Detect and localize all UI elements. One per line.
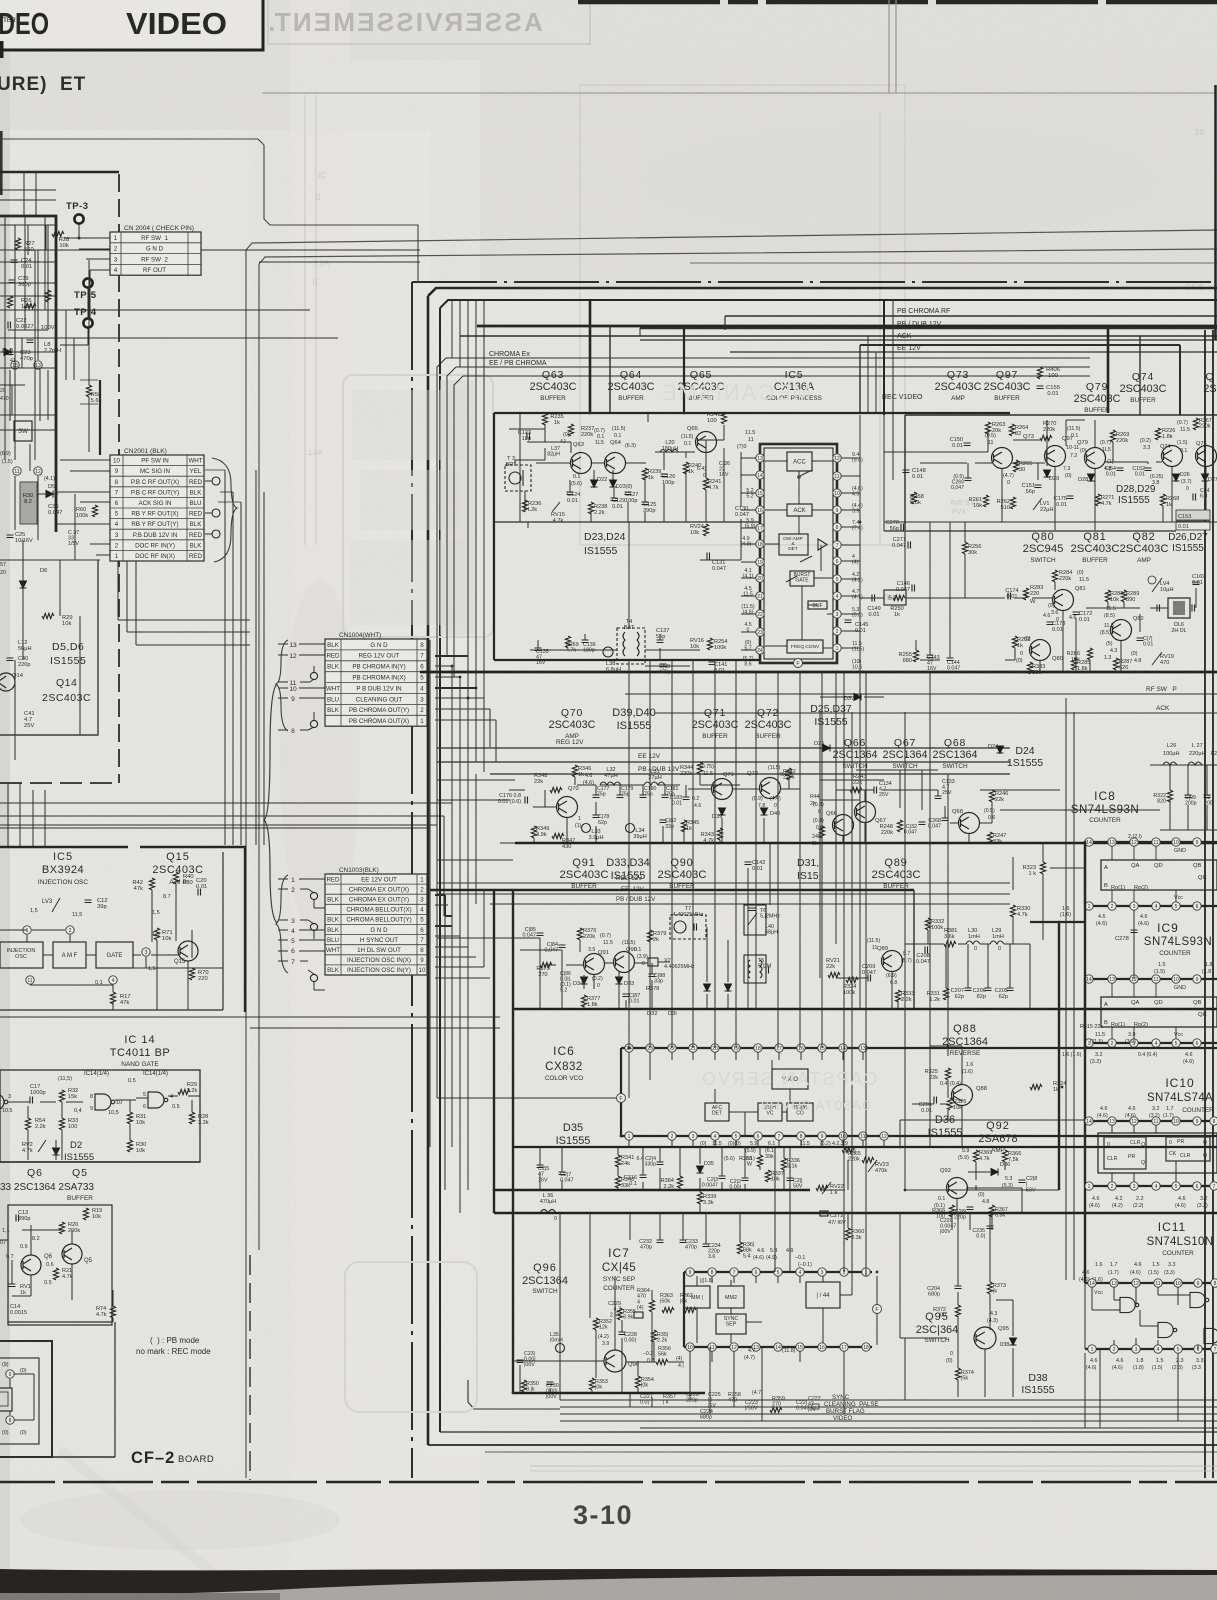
capacitor C184 0.047 <box>559 945 566 948</box>
box FREQ CONV <box>787 640 823 653</box>
resistor R353 10k <box>589 1378 594 1390</box>
box AFC DET <box>705 1103 729 1121</box>
capacitor C201 0.01 <box>934 1097 937 1104</box>
capacitor C174 0.01 <box>1008 593 1011 600</box>
capacitor C178 62p <box>593 815 600 818</box>
capacitor C149 0.01 <box>872 595 875 602</box>
transistor Q96 <box>604 1350 626 1372</box>
wires Q6 Q5 block <box>30 1225 32 1255</box>
resistor R235 1k <box>542 413 547 425</box>
wires row3 <box>437 937 540 939</box>
wires bottom drops <box>651 1397 653 1407</box>
capacitor C230 0.001 100V <box>547 1382 554 1385</box>
resistor R361 68k <box>737 1242 742 1254</box>
box AMF <box>53 942 86 968</box>
capacitor C136 180p <box>582 640 589 643</box>
resistor R263 20k <box>985 422 990 434</box>
wires top right coils <box>1150 764 1217 766</box>
resistor R30b 10k <box>127 1140 132 1152</box>
capacitor C143 47 16V <box>927 655 934 658</box>
capacitor C268 0.047 <box>942 818 949 821</box>
pin circle 9 <box>6 1370 14 1378</box>
vco chip IC6 top pin bus <box>621 1047 1217 1049</box>
transistor Q73 <box>992 448 1013 469</box>
capacitor C176 0.01 <box>525 797 528 804</box>
wires CN2001 to bundle <box>224 470 226 845</box>
resistor R21 4.7k <box>53 1268 58 1280</box>
box BURST GATE <box>790 571 814 586</box>
capacitor C154 0.01 <box>1117 468 1124 471</box>
node F IC5 <box>794 659 803 668</box>
transistor Q89 <box>882 951 903 972</box>
resistor R377 1.8k <box>581 995 586 1007</box>
wires CN2001 left <box>60 459 110 461</box>
wires IC5 BX block <box>0 929 27 931</box>
resistor R246 22k <box>989 790 994 802</box>
resistor R325 22k <box>945 1068 950 1080</box>
diode D38 symbol <box>1010 1338 1017 1345</box>
diode D29 <box>1044 470 1051 477</box>
diode D28 <box>1088 474 1095 481</box>
transistor Q82 <box>1111 620 1132 641</box>
wire R58 vertical <box>88 260 90 385</box>
resistor R250 1k <box>893 595 905 600</box>
wires row1 extra verticals <box>519 413 521 522</box>
capacitor C145 0.01 <box>845 620 852 623</box>
pin circle 1 <box>23 926 31 934</box>
page-edge mark under header box <box>0 41 4 58</box>
wires left block upper <box>14 225 16 360</box>
wires Q14 area <box>14 476 16 530</box>
capacitor C155 0.01 <box>1037 386 1044 389</box>
capacitor C141 0.01 <box>709 662 716 665</box>
capacitors C177 C179 C180 C181 <box>593 795 600 798</box>
left block main border <box>0 216 56 532</box>
wires Q66 row <box>836 789 874 791</box>
delay line DL6 <box>1168 598 1190 618</box>
crystal X2 <box>648 958 658 966</box>
transistor Q65 <box>696 432 717 453</box>
resistor R269 220k <box>1110 430 1115 442</box>
left board dash boundary <box>118 174 120 783</box>
resistor R374 15k <box>955 1368 960 1380</box>
page-edge dark bar left <box>0 131 3 195</box>
nand gate left partial <box>0 1094 8 1110</box>
wires left-to-bundle long <box>0 802 452 804</box>
wires Q95 <box>957 1245 959 1286</box>
wires long row3 verticals <box>755 843 757 905</box>
small box in nested block <box>0 1388 12 1411</box>
resistor R29 10k <box>42 613 54 618</box>
row3 bottom bus <box>513 1008 1217 1010</box>
resistor R289 390 <box>1121 590 1126 602</box>
left dashed vertical <box>249 1255 251 1480</box>
capacitor C235 0.01 <box>987 1226 994 1229</box>
nand gate IC11 a <box>1120 1297 1139 1312</box>
capacitor C124 0.01 <box>567 492 574 495</box>
box GATE <box>96 942 133 968</box>
diode D34 <box>581 977 588 984</box>
resistor R288 10k <box>1105 590 1110 602</box>
resistor R375 270 <box>540 962 552 967</box>
resistor R352 12k <box>593 1318 598 1330</box>
CN1004 brace <box>276 640 288 731</box>
IC7 left edge <box>683 1272 685 1347</box>
resistor R367 6.8k <box>989 1205 994 1217</box>
transistor Q75 <box>1196 446 1217 467</box>
outer boundary line B <box>259 249 1217 264</box>
resistor R286 10k <box>1087 648 1092 660</box>
capacitor C270 56p <box>901 524 904 531</box>
wires signal drops <box>559 1393 561 1400</box>
resistor R26 1.2k <box>7 296 12 308</box>
capacitor C127 100p <box>625 492 632 495</box>
capacitor C278 <box>1131 930 1138 933</box>
capacitor C272 47/16V <box>820 1211 828 1216</box>
pin circle 3 <box>142 948 150 956</box>
wires CN1003 to main block <box>435 894 445 896</box>
capacitor C138 470p <box>660 664 667 667</box>
nand chip IC11 bottom pins <box>1085 1348 1217 1350</box>
Q96 block bottom bus <box>513 1392 705 1394</box>
bus EE 12V top <box>730 351 1217 353</box>
resistor R339 3.3k <box>697 1192 702 1204</box>
resistor R287 620 <box>1113 658 1118 670</box>
bottom page edge shadow <box>0 1574 1217 1600</box>
left block lower border <box>0 560 98 735</box>
resistor R28b 3.3k <box>189 1112 194 1124</box>
wire long verticals B <box>755 672 757 1009</box>
box 1/44 <box>806 1282 840 1308</box>
resistor R254 100k <box>707 638 712 650</box>
wire mid long verticals <box>929 672 931 1147</box>
ghost mirrored ASSERVISSEMENT bleed-through <box>268 0 590 44</box>
resistor R258 5.6k <box>911 492 916 504</box>
resistor R331 1.2k <box>943 988 948 1000</box>
pin circle 2 <box>66 926 74 934</box>
board dash-dot boundary top <box>412 281 1217 283</box>
left block bottom border <box>0 1456 115 1458</box>
row1 bottom bus <box>420 671 1217 674</box>
resistor R379 2k <box>647 930 652 942</box>
bus PB/DUB 12V <box>640 327 1217 329</box>
transistor Q70 <box>557 797 578 818</box>
resistor R372 100 <box>955 1305 960 1317</box>
wires mid horizontals <box>437 859 513 861</box>
block border IC5 BX3924 <box>0 846 128 848</box>
resistor R268 1k <box>1160 494 1165 506</box>
line ACK mid <box>655 712 1217 714</box>
wires IC11 <box>1091 1287 1093 1310</box>
transistor Q74 <box>1162 446 1183 467</box>
capacitor C39 360p <box>9 280 16 283</box>
resistor R242 100 <box>721 412 726 424</box>
ghost bleed block mid-left <box>343 375 493 637</box>
resistor R261 10k <box>983 495 988 507</box>
capacitor C173 0.01 <box>1047 622 1054 625</box>
wire TP4 TP5 stubs <box>87 288 89 318</box>
capacitor C12 39p <box>85 900 92 903</box>
nand gate IC11 d <box>1204 1328 1217 1343</box>
resistor R240 1k <box>683 462 688 474</box>
resistor R17 47k <box>110 992 115 1004</box>
diode D35 symbol <box>697 1166 704 1173</box>
main block outer border <box>428 288 1217 296</box>
row2 bottom bus <box>515 842 1217 845</box>
capacitor C234 220p <box>703 1244 710 1247</box>
resistor R226 1.8k <box>1155 428 1160 440</box>
ff chip IC10 top pins <box>1085 1120 1217 1122</box>
resistor R32 15k <box>59 1090 64 1102</box>
resistor R336 5.1k <box>781 1158 786 1170</box>
wires Q88 Q92 <box>947 1046 949 1056</box>
wires row2 <box>509 789 525 791</box>
capacitor C152 0.01 <box>1145 468 1152 471</box>
wires IC8 left bus <box>1058 922 1060 1190</box>
SW box <box>14 421 32 441</box>
resistor R337 10k <box>765 1170 770 1182</box>
signal line BURST FLAG <box>560 1413 1217 1415</box>
box 3534H CO <box>787 1103 813 1121</box>
transistor Q14 <box>0 673 15 691</box>
parts R322 C199 C200 <box>1167 790 1172 802</box>
wires upper left extra <box>0 189 56 191</box>
resistor R373 1k <box>987 1282 992 1294</box>
capacitor C129 0.01 <box>611 498 618 501</box>
wires IC7 pin drops <box>711 1276 713 1283</box>
wires Q63 area <box>509 428 545 430</box>
nand gate IC11 c <box>1158 1322 1177 1337</box>
box MM2 <box>718 1286 744 1308</box>
box OW AMP DET <box>779 534 808 555</box>
capacitor C208 0.047 <box>925 947 928 954</box>
resistor R350 9.1k <box>521 1380 526 1392</box>
transistor Q6 <box>21 1255 41 1275</box>
wires T4 area <box>530 649 617 651</box>
left block top border <box>0 171 119 174</box>
ghost bleed rounded rect bottom-left <box>345 1262 477 1412</box>
capacitor C153 0.01 highlighted <box>1176 510 1210 520</box>
signal line VIDEO <box>560 1420 1217 1422</box>
resistor R271 4.7k <box>1095 494 1100 506</box>
capacitor C204 680p <box>955 1286 962 1289</box>
capacitor C187 0.01 <box>623 994 630 997</box>
wires Q73 row <box>884 451 988 453</box>
bus ACK top <box>640 339 1217 341</box>
node F IC7 <box>873 1305 882 1314</box>
resistor R283 220 <box>1023 588 1028 600</box>
wire bundle vertical feeders <box>451 300 453 358</box>
capacitor C218 50V <box>1019 1180 1026 1183</box>
resistor R262 510 <box>1010 497 1015 509</box>
IC5 right stub wires <box>841 457 860 459</box>
bottom border line <box>468 1380 560 1409</box>
pin circles 11 12 <box>13 467 21 475</box>
transistor Q63 <box>571 453 592 474</box>
junction dots <box>589 325 592 328</box>
resistor R284 220k <box>1052 570 1057 582</box>
capacitor C183 0.01 <box>683 797 690 800</box>
resistor R71 10k <box>154 928 159 940</box>
resistor R349 3.9k <box>531 826 536 838</box>
row1 block border <box>494 412 1010 414</box>
vco chip IC6 bottom pin bus <box>621 1135 1217 1137</box>
wires IC6 internal <box>714 1089 716 1103</box>
capacitor C126 100p <box>661 474 668 477</box>
IC5 left pins <box>756 454 764 462</box>
resistor R40 680 <box>173 872 178 884</box>
diode D33 <box>616 977 623 984</box>
diodes D32 D31 <box>704 984 711 991</box>
capacitor C228 0.001 <box>619 1332 626 1335</box>
transistor Q97 <box>1045 446 1066 467</box>
transistor Q15 <box>178 941 198 961</box>
amp triangle IC5 <box>818 539 827 550</box>
resistor R360 3.3k <box>845 1228 850 1240</box>
resistor R267 220k <box>1193 418 1198 430</box>
capacitor C23 470p <box>7 352 14 355</box>
wires nested block <box>9 1379 11 1388</box>
resistor R383 33k <box>1027 662 1032 674</box>
wires CN1004 to main block <box>435 655 468 657</box>
IC5 left stub wires <box>741 457 756 459</box>
node F IC6 <box>617 1094 626 1103</box>
pin circle 8 <box>6 1416 14 1424</box>
capacitor C215 47 16V <box>537 1165 544 1168</box>
wire mid verticals <box>904 531 906 590</box>
signal line 5th <box>640 1427 1217 1429</box>
resistor R241 4.7k <box>703 478 708 490</box>
wires CN1004 bundle verticals <box>429 640 431 1147</box>
wire from left block top <box>0 139 418 282</box>
capacitor C172 0.01 <box>1073 612 1080 615</box>
wires lower mid verticals <box>559 1213 561 1361</box>
counter IC8 chip <box>1085 841 1217 843</box>
counter IC9 chip <box>1085 978 1217 980</box>
wires BPF row <box>860 597 884 599</box>
block border Q6 Q5 <box>8 1205 112 1325</box>
resistor R29b 2.2k <box>178 1089 190 1094</box>
capacitor C123 18p <box>527 433 530 440</box>
pin circle 11 <box>26 976 34 984</box>
resistor R255 680 <box>913 650 918 662</box>
resistor R58 5.6k <box>86 385 91 397</box>
header title box VIDEO <box>0 0 263 50</box>
signal line SYNC <box>560 1399 1217 1401</box>
wires row4 parts <box>539 1147 541 1165</box>
resistor R265 30 <box>1013 460 1018 472</box>
row1 right block border <box>860 344 1180 346</box>
left block dashed bottom <box>0 782 119 784</box>
resistor R27 560 <box>15 238 20 250</box>
wires left upper block dense <box>4 216 6 460</box>
footer faint lines <box>530 1465 1217 1467</box>
resistor R368 100 <box>949 1205 954 1217</box>
capacitor C207 62p <box>965 988 972 991</box>
diode D40 <box>761 808 768 815</box>
transistor Q72 <box>760 778 781 799</box>
row4 bus3 <box>494 1212 1217 1214</box>
big cable brace <box>264 684 277 923</box>
resistor R60 100k <box>92 505 97 517</box>
capacitor C188 33p <box>649 974 656 977</box>
wires IC7 internal <box>696 1276 698 1286</box>
capacitor C206 82p <box>985 988 992 991</box>
resistor R282 1k <box>1012 636 1017 648</box>
left block inner border <box>99 380 101 455</box>
resistor R384 2.2k <box>677 1176 682 1188</box>
transistor Q71 <box>712 779 733 800</box>
ghost block outline top middle <box>305 85 905 545</box>
resistor R338 39k <box>757 1155 762 1167</box>
resistor R31 10k <box>127 1112 132 1124</box>
wires row2 horizontals <box>437 779 515 781</box>
capacitor C213 0.0047 <box>719 1176 726 1179</box>
nested block inner <box>0 1358 39 1444</box>
capacitors C232 C233 <box>657 1240 664 1243</box>
transistor Q81 <box>1053 590 1074 611</box>
IC5 right pins <box>833 454 841 462</box>
row4 bus <box>513 1146 1217 1148</box>
resistor R330 4.7k <box>1010 905 1015 917</box>
resistor R346 1k <box>572 765 577 777</box>
capacitor C142 0.01 <box>745 862 752 865</box>
resistor R70 220 <box>189 968 194 980</box>
capacitor C146 0.047 <box>912 585 915 592</box>
transistor Q64 <box>605 453 626 474</box>
resistor R340 33k <box>615 1176 620 1188</box>
resistor R355 3.9k <box>617 1308 622 1320</box>
capacitor C20 0.01 <box>198 889 201 896</box>
wires Q96 area <box>614 1276 616 1350</box>
box INJECTION OSC <box>0 942 43 968</box>
capacitor C269 0.047 <box>965 478 972 481</box>
resistor R345 1k <box>681 820 686 832</box>
sync chip IC7 top pins <box>684 1271 872 1273</box>
wire long verticals A <box>843 672 845 1272</box>
capacitor C171 0.01 <box>1137 638 1144 641</box>
resistor R342 220k <box>786 768 791 780</box>
wires below CN2001 <box>117 561 119 620</box>
box VCO 35lfH <box>758 1103 782 1121</box>
nand chip IC11 top pins <box>1085 1282 1217 1284</box>
IC5 internal wires <box>765 460 787 462</box>
transistor Q91 <box>584 954 605 975</box>
resistor R236 1.2k <box>522 500 527 512</box>
bus second top left <box>460 335 1217 337</box>
capacitor C214 330p <box>657 1162 664 1165</box>
bottom dashed border <box>0 1481 1217 1483</box>
capacitor C151 56p <box>1035 485 1042 488</box>
nested block outer <box>0 1341 52 1457</box>
ff chip IC10 bottom pins <box>1085 1185 1217 1187</box>
pin circle 4 <box>109 976 117 984</box>
resistor R332 100k <box>925 918 930 930</box>
resistor R285 1.8k <box>1071 658 1076 670</box>
resistor R19 10k <box>83 1208 88 1220</box>
resistor R351 2.2k <box>651 1330 656 1342</box>
resistor R238 2.2k <box>588 502 593 514</box>
wires IC6 bottom pin drops <box>628 1140 630 1147</box>
line RF SW P <box>625 693 1217 695</box>
resistor R33 100 <box>59 1118 64 1130</box>
resistor R347 430 <box>552 833 564 838</box>
resistor R333 2.2k <box>895 990 900 1002</box>
transistor Q66 <box>833 815 854 836</box>
diodes D22 D23 <box>591 480 598 487</box>
resistor R256 30k <box>962 542 967 554</box>
sync chip IC7 bottom pins <box>684 1346 872 1348</box>
